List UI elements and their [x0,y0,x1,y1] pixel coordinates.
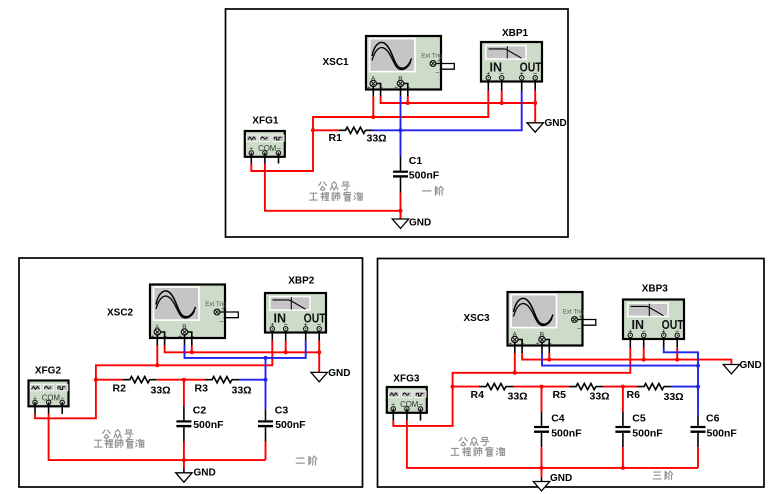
wire: XFG1 COM pin stub [264,153,266,164]
junction: A+/source [371,115,375,119]
junction: B-/minus net [190,350,194,354]
wire: B+ down to C1 (blue) [400,96,402,157]
note 二阶 (second order) [296,456,317,465]
wire: source net XFG1+ to XBP1 IN+ [251,91,488,172]
junction: C2/ground net [182,458,186,462]
svg-text:C1: C1 [409,155,423,167]
wire: R1 right to XBP1 OUT+ (blue) [373,91,522,131]
svg-text:GND: GND [740,360,762,371]
wire: XFG3 - pin stub [420,409,422,421]
svg-text:XFG2: XFG2 [35,366,62,377]
svg-text:500nF: 500nF [632,427,663,439]
svg-text:33Ω: 33Ω [508,390,528,402]
junction: B+/output net [399,128,403,132]
wire: R3 right lead to node (blue) [239,379,266,381]
wire: XBP3 OUT- stub [676,337,678,347]
wire: OUT- down to ground [318,341,320,373]
junction: B-/minus net [547,358,551,362]
wire: R4 right to R5 left (node C4) [513,386,569,388]
svg-text:XBP1: XBP1 [502,28,529,39]
wire: minus net A- to ground column [522,353,731,365]
capacitor C4 [534,426,549,433]
junction: OUT-/minus net [675,358,679,362]
svg-text:33Ω: 33Ω [232,385,252,397]
resistor R2 [123,377,157,383]
capacitor C5 [615,426,630,433]
wire: C3 down to ground net [265,442,267,461]
wire: scope B- stub [545,340,550,354]
wire: C4 top lead (red) [541,387,543,412]
wire: XFG3 + pin stub [392,409,394,421]
junction: C5/ground net [621,466,625,470]
wire: output node drop to R3 right (blue) [265,358,267,380]
wire: R2 right to R3 left (node C2) [157,379,205,381]
oscilloscope XSC2 [150,285,238,341]
oscilloscope XSC3 [508,292,596,348]
capacitor C1 [393,171,408,178]
svg-text:C4: C4 [551,412,565,424]
junction: R2/R3/C2 node [182,378,186,382]
svg-text:GND: GND [328,368,350,379]
ground GND (bode side) [311,372,327,381]
svg-text:33Ω: 33Ω [664,391,684,403]
wire: C1 to ground [400,193,402,220]
wire: B+ to output column (blue) [542,353,698,366]
wire: node down to C3 (blue) [265,380,267,410]
wire: ground net XFG1 COM to C1 bottom [265,164,401,211]
svg-text:GND: GND [194,467,216,478]
junction: OUT-/minus net [317,350,321,354]
wire: scope A+ stub [156,334,158,346]
oscilloscope XSC1 [366,36,454,92]
wire: C1 top lead [400,157,402,171]
wire: scope A+ stub [514,342,516,354]
junction: IN-/minus net [284,350,288,354]
svg-text:XBP2: XBP2 [288,276,315,287]
junction: B+/output column [696,364,700,368]
svg-text:33Ω: 33Ω [590,390,610,402]
watermark 公众号 [319,182,350,191]
wire: minus net A- to XBP2 OUT- column [165,346,320,353]
wire: scope A- stub [160,332,165,346]
resistor R3 [205,377,239,383]
wire: IN- drop to minus net [501,91,503,104]
wire: minus net A- to XBP1 OUT- column [381,96,536,103]
svg-text:33Ω: 33Ω [367,132,387,144]
function generator XFG1 [245,131,285,157]
junction: A+/source [155,363,159,367]
ground GND (bottom) [176,473,192,482]
ground GND (bottom) [392,219,408,228]
wire: source net XFG2+ to XBP2 IN+ [35,341,272,419]
resistor R4 [479,384,513,390]
resistor R1 [339,127,373,133]
wire: C5 to ground net [622,447,624,468]
svg-text:R2: R2 [113,383,127,395]
junction: C1/ground net [399,209,403,213]
wire: XBP1 OUT- stub [534,80,536,91]
junction: R6/C6/output column [696,385,700,389]
wire: ground net XFG3 COM to C6 [407,421,698,468]
svg-text:XFG1: XFG1 [252,116,279,127]
wire: B- drop to minus net [548,353,550,360]
svg-text:GND: GND [545,118,567,129]
capacitor C6 [691,426,706,433]
wire: C2 top lead (black) [183,406,185,420]
wire: ground lead [183,460,185,468]
bode plotter XBP3 [623,300,684,340]
wire: OUT- drop to minus net [676,348,678,360]
wire: IN- drop to minus net [643,348,645,360]
wire: B- drop to minus net [407,96,409,103]
wire: C6 top lead (black) [697,416,699,426]
wire: C5 top lead (black) [622,412,624,426]
function generator XFG3 [387,387,427,413]
watermark 工程师看海 [94,439,144,448]
wire: branch to R4 left [453,386,479,388]
wire: C6 bottom lead [697,433,699,447]
wire: XFG2 - pin stub [61,402,63,414]
wire: XFG3 COM pin stub [406,409,408,421]
wire: scope A+ to source line [156,346,158,366]
wire: XFG2 COM pin stub [48,402,50,414]
svg-text:C6: C6 [706,412,720,424]
wire: scope B- stub [187,332,192,346]
wire: C5 bottom lead [622,433,624,447]
wire: XBP1 OUT+ stub [521,80,523,91]
wire: ground lead [541,468,543,478]
wire: B- drop to minus net [191,346,193,353]
svg-text:R1: R1 [329,132,343,144]
ground GND (bottom) [533,482,549,491]
svg-text:C5: C5 [632,412,646,424]
wire: scope B+ stub [400,86,402,97]
wire: XFG2 + pin stub [34,402,36,414]
wire: R5 right to R6 left (node C5) [603,386,637,388]
wire: scope A- stub [518,340,523,354]
wire: XBP1 IN+ stub [487,80,489,91]
wire: C4 bottom lead [541,433,543,447]
svg-text:R3: R3 [195,383,209,395]
junction: R3/C3/output node [264,378,268,382]
wire: OUT+ to output column down to C6 (blue) [664,348,698,416]
svg-text:500nF: 500nF [551,427,582,439]
resistor R6 [637,384,671,390]
svg-text:R5: R5 [553,389,567,401]
wire: scope B+ stub [184,334,186,346]
wire: scope A+ stub [372,86,374,97]
svg-text:XFG3: XFG3 [393,374,420,385]
junction: B-/minus net [406,101,410,105]
watermark 公众号 [459,437,489,446]
wire: C6 down to ground net [697,447,699,468]
frame: second-order circuit boundary box [19,258,363,487]
wire: C5 top lead (red) [622,387,624,412]
junction: source/R1 [311,128,315,132]
svg-text:500nF: 500nF [275,419,306,431]
frame: first-order circuit boundary box [226,9,569,237]
wire: C1 bottom lead [400,178,402,193]
bode plotter XBP1 [481,42,542,82]
junction: C4/ground net [540,466,544,470]
wire: XFG1 - pin stub [278,153,280,164]
svg-text:XSC1: XSC1 [323,57,350,68]
svg-text:GND: GND [409,218,431,229]
wire: branch to R1 left [313,129,339,131]
watermark 公众号 [102,430,133,439]
wire: C3 top lead (black) [265,409,267,420]
junction: R4/R5/C4 node [540,385,544,389]
svg-text:C2: C2 [193,405,207,417]
function generator XFG2 [29,381,69,407]
ground GND (bode side) [723,365,739,374]
junction: IN-/minus net [642,358,646,362]
wire: C3 bottom lead [265,427,267,441]
svg-text:R4: R4 [471,389,485,401]
wire: scope A+ to source line [372,96,374,117]
wire: XBP3 IN- stub [643,337,645,347]
wire: B+ to XBP2 OUT+ (blue) [185,341,306,358]
wire: branch to R2 left [96,379,123,381]
bode plotter XBP2 [265,293,326,333]
junction: IN-/minus net [500,101,504,105]
svg-text:R6: R6 [627,389,641,401]
wire: XBP2 IN- stub [285,331,287,341]
note 三阶 (third order) [653,471,673,479]
watermark 工程师看海 [451,447,505,456]
wire: R6 right lead to output column (blue) [671,386,698,388]
wire: scope B- stub [403,84,408,97]
wire: C4 to ground net [541,447,543,468]
wire: XBP2 IN+ stub [271,331,273,341]
watermark 工程师看海 [309,192,362,201]
svg-text:GND: GND [550,473,572,484]
junction: source/R4 [451,385,455,389]
wire: XBP3 IN+ stub [629,337,631,347]
wire: C2 bottom lead [183,427,185,441]
wire: scope A+ to source line [514,353,516,373]
svg-text:C3: C3 [275,405,289,417]
svg-text:500nF: 500nF [707,427,738,439]
wire: scope B+ stub [541,342,543,354]
capacitor C3 [258,420,273,427]
wire: C4 top lead (black) [541,412,543,426]
junction: OUT-/minus net [533,101,537,105]
wire: XBP2 OUT- stub [318,331,320,341]
wire: scope A- stub [376,84,381,97]
svg-text:XBP3: XBP3 [642,283,669,294]
svg-text:500nF: 500nF [193,419,224,431]
wire: XFG1 + pin stub [250,153,252,164]
wire: XBP1 IN- stub [501,80,503,91]
svg-text:33Ω: 33Ω [151,385,171,397]
wire: OUT- down to ground [534,91,536,123]
wire: C2 to ground net [183,442,185,461]
resistor R5 [569,384,603,390]
wire: source net XFG3+ to XBP3 IN+ [393,348,630,426]
frame: third-order circuit boundary box [378,259,765,488]
junction: R5/R6/C5 node [621,385,625,389]
junction: A+/source [513,371,517,375]
wire: XBP2 OUT+ stub [305,331,307,341]
ground GND (bode side) [527,123,543,132]
junction: source/R2 [94,378,98,382]
wire: ground net XFG2 COM to C3 [49,414,266,460]
junction: B+ line/output drop [264,356,268,360]
capacitor C2 [176,420,191,427]
note 一阶 (first order) [423,186,444,195]
wire: C2 top lead (red) [183,380,185,407]
svg-text:XSC2: XSC2 [107,307,134,318]
wire: IN- drop to minus net [285,341,287,353]
svg-text:500nF: 500nF [409,169,440,181]
wire: XBP3 OUT+ stub [663,337,665,347]
svg-text:XSC3: XSC3 [464,313,491,324]
